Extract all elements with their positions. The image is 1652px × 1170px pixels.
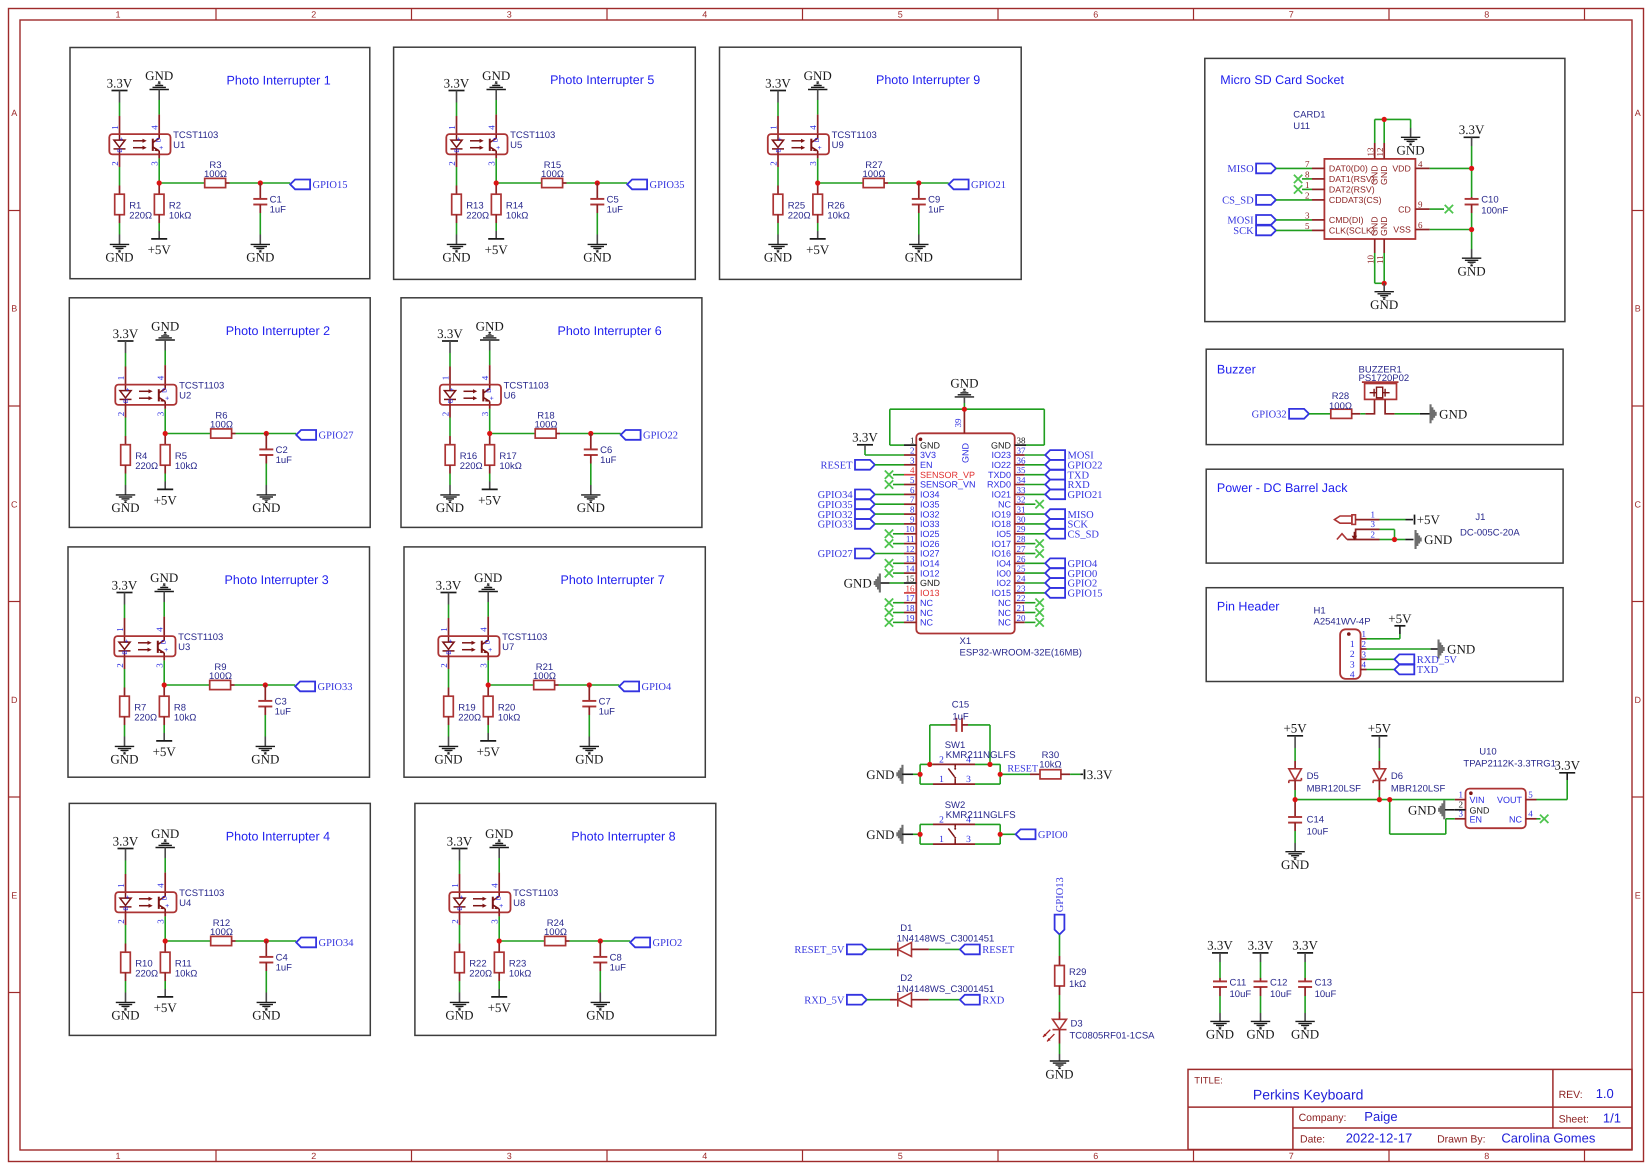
pin of R23 [498, 973, 500, 981]
wire [559, 684, 590, 686]
pin of R6 [210, 433, 212, 435]
svg-text:CS_SD: CS_SD [1068, 530, 1100, 541]
pin 28 of X1 [1015, 543, 1025, 545]
wire [777, 167, 779, 186]
light arrows of U6 [464, 390, 474, 392]
ground [479, 584, 498, 591]
svg-text:GND: GND [1424, 532, 1452, 547]
ground [896, 765, 903, 784]
pin of R16 [449, 436, 451, 445]
ground [580, 746, 599, 753]
pin 1 of U7 [448, 618, 450, 636]
svg-text:14: 14 [906, 564, 916, 574]
no-connect X [885, 569, 893, 578]
wire [164, 340, 166, 351]
svg-text:GND: GND [1370, 297, 1398, 312]
svg-text:RXD_5V: RXD_5V [804, 995, 845, 1006]
wire [1367, 648, 1431, 650]
no-connect X [885, 471, 893, 479]
light arrows of U7 [462, 642, 472, 644]
wire [560, 433, 591, 435]
svg-text:+5V: +5V [485, 242, 509, 257]
global label GPIO32 [1289, 409, 1309, 419]
svg-text:+5V: +5V [1417, 512, 1441, 527]
global label GPIO0 [1045, 568, 1065, 578]
pin of R12 [210, 940, 212, 942]
power 3.3V [452, 848, 468, 850]
svg-text:GND: GND [920, 440, 941, 450]
wire [495, 231, 497, 239]
svg-text:+5V: +5V [478, 493, 502, 508]
ESP32 module X1 body [916, 433, 1014, 633]
wire [893, 612, 904, 614]
global label GPIO35 [855, 499, 875, 509]
svg-text:SENSOR_VN: SENSOR_VN [920, 480, 976, 490]
pin of R28 [1352, 413, 1361, 415]
svg-text:2: 2 [441, 412, 451, 417]
switch arrow of J1 [1353, 532, 1355, 537]
svg-text:3.3V: 3.3V [113, 833, 139, 848]
junction [1377, 797, 1382, 802]
svg-text:GND: GND [804, 68, 832, 83]
svg-text:220Ω: 220Ω [134, 713, 157, 724]
capacitor C8 1uF [593, 957, 607, 963]
svg-text:1uF: 1uF [952, 711, 969, 722]
svg-text:GND: GND [150, 570, 178, 585]
wire [963, 403, 965, 409]
wire [489, 409, 491, 434]
wire [1025, 621, 1036, 623]
pin 6 of X1 [904, 493, 916, 495]
section box Power - DC Barrel Jack [1206, 469, 1563, 563]
ground [1375, 292, 1394, 299]
svg-text:B: B [123, 399, 130, 403]
svg-text:1: 1 [116, 376, 126, 381]
wire [1025, 484, 1046, 486]
svg-text:NC: NC [998, 598, 1011, 608]
pin 31 of X1 [1015, 513, 1025, 515]
svg-text:U7: U7 [502, 642, 514, 653]
svg-text:D3: D3 [1071, 1019, 1083, 1030]
resistor R28 100Ω [1331, 409, 1352, 418]
pin 3 of H1 [1361, 658, 1367, 660]
svg-text:IO33: IO33 [920, 519, 940, 529]
power 3.3V [1212, 952, 1228, 954]
wire [1471, 137, 1473, 146]
section box Photo Interrupter 7 [404, 547, 705, 777]
wire [889, 409, 891, 445]
wire [1304, 996, 1306, 1013]
wire [1431, 648, 1438, 650]
ground [874, 574, 881, 593]
svg-text:4: 4 [1418, 159, 1423, 169]
svg-text:3.3V: 3.3V [107, 75, 133, 90]
pin 4 of U10 [1526, 818, 1537, 820]
svg-text:10kΩ: 10kΩ [169, 211, 191, 222]
pin 1 of X1 [904, 444, 916, 446]
pin 18 of X1 [904, 612, 916, 614]
opto-interrupter U8 TCST1103 [449, 892, 510, 912]
svg-text:2: 2 [311, 10, 316, 20]
global label GPIO4 [1045, 558, 1065, 568]
svg-text:+5V: +5V [1388, 611, 1412, 626]
pin of D2 [890, 999, 898, 1001]
wire [913, 773, 920, 775]
svg-text:9: 9 [1418, 200, 1423, 210]
wire [1302, 178, 1312, 180]
pins of SW1 [933, 763, 975, 765]
svg-text:+: + [165, 903, 169, 910]
wire [920, 763, 933, 765]
junction [494, 180, 499, 185]
svg-text:1: 1 [441, 376, 451, 381]
wire [930, 724, 951, 726]
pin of R11 [164, 973, 166, 981]
wire [163, 660, 165, 685]
svg-text:1: 1 [450, 883, 460, 888]
resistor R9 100Ω [210, 680, 231, 689]
svg-text:VDD: VDD [1392, 164, 1411, 174]
global label TXD [1394, 665, 1414, 675]
svg-text:33: 33 [1017, 485, 1027, 495]
pin of R2 [158, 215, 160, 223]
pin of R7 [124, 688, 126, 697]
wire [495, 223, 497, 231]
power 3.3V [1297, 952, 1313, 954]
pin 3 of U1 [158, 154, 160, 158]
svg-text:Photo Interrupter 2: Photo Interrupter 2 [226, 324, 330, 338]
svg-text:+: + [124, 639, 128, 646]
power +5V [482, 488, 498, 490]
wire [499, 940, 545, 942]
wire [119, 223, 121, 235]
svg-text:GPIO35: GPIO35 [650, 180, 685, 191]
pin of C11 [1219, 978, 1221, 981]
svg-text:B: B [1635, 304, 1641, 314]
svg-text:TXD: TXD [1417, 665, 1439, 676]
wire [448, 725, 450, 737]
svg-text:1: 1 [769, 125, 779, 130]
wire [158, 231, 160, 239]
svg-text:3: 3 [966, 775, 971, 785]
svg-text:5: 5 [898, 10, 903, 20]
wire [456, 167, 458, 186]
global label MISO [1256, 164, 1276, 174]
svg-text:MBR120LSF: MBR120LSF [1391, 784, 1446, 795]
section box Photo Interrupter 6 [401, 298, 702, 528]
section box Buzzer [1206, 349, 1563, 444]
wire [1260, 996, 1262, 1013]
junction [1293, 797, 1298, 802]
wire [893, 533, 904, 535]
svg-text:IO18: IO18 [991, 519, 1011, 529]
pin 1 of U3 [124, 618, 126, 636]
svg-text:1: 1 [1350, 640, 1355, 650]
pin of R17 [489, 465, 491, 473]
ground [581, 495, 600, 502]
wire [1070, 773, 1080, 775]
wire [449, 341, 451, 353]
wire [1309, 413, 1330, 415]
wire [1537, 799, 1568, 801]
svg-text:ESP32-WROOM-32E(16MB): ESP32-WROOM-32E(16MB) [960, 648, 1082, 659]
wire [124, 605, 126, 619]
wire [567, 182, 598, 184]
svg-text:1: 1 [447, 125, 457, 130]
wire [591, 433, 621, 435]
wire [448, 605, 450, 619]
pin of C10 [1471, 205, 1473, 214]
svg-text:10uF: 10uF [1307, 827, 1329, 838]
no-connect X [1035, 549, 1043, 558]
svg-text:3.3V: 3.3V [1554, 758, 1580, 773]
power 3.3V [1253, 952, 1269, 954]
resistor R27 100Ω [863, 178, 884, 187]
pin of C5 [596, 183, 598, 199]
wire [818, 182, 864, 184]
wire [1276, 167, 1312, 169]
pin 3 of U4 [164, 912, 166, 916]
pin of R8 [163, 717, 165, 725]
svg-text:MISO: MISO [1227, 164, 1254, 175]
LED of U9 [772, 135, 784, 154]
svg-text:GND: GND [905, 250, 933, 265]
phototransistor of U1 [153, 135, 159, 154]
pin of D5 [1294, 761, 1296, 769]
wire [1080, 773, 1083, 775]
pin of R30 [1030, 773, 1040, 775]
pin of R16 [449, 465, 451, 473]
svg-text:VSS: VSS [1393, 225, 1411, 235]
wire [1059, 995, 1061, 1012]
svg-text:4: 4 [808, 125, 818, 130]
svg-text:4: 4 [155, 627, 165, 632]
pin 4 of U3 [163, 617, 165, 637]
svg-text:KMR211NGLFS: KMR211NGLFS [946, 750, 1017, 761]
pin of C1 [259, 183, 261, 199]
pin of R27 [884, 182, 888, 184]
wire [448, 737, 450, 747]
wire [489, 482, 491, 490]
pin of R14 [495, 215, 497, 223]
no-connect X [885, 599, 893, 607]
svg-text:Micro SD Card Socket: Micro SD Card Socket [1220, 73, 1344, 87]
wire [459, 925, 461, 944]
pin 13 of X1 [904, 562, 916, 564]
svg-text:EN: EN [920, 460, 933, 470]
wire [495, 100, 497, 115]
svg-text:GPIO27: GPIO27 [818, 549, 853, 560]
junction [497, 938, 502, 943]
wire [159, 182, 205, 184]
svg-text:1: 1 [439, 627, 449, 632]
svg-text:2: 2 [115, 663, 125, 668]
svg-text:100Ω: 100Ω [209, 671, 232, 682]
svg-text:1: 1 [1305, 180, 1310, 190]
svg-text:4: 4 [480, 375, 490, 380]
junction [587, 682, 592, 687]
ground [1415, 530, 1422, 549]
wire [264, 737, 266, 747]
svg-text:NC: NC [920, 608, 933, 618]
svg-text:220Ω: 220Ω [135, 969, 158, 980]
capacitor C13 10uF [1298, 981, 1312, 987]
ground [257, 495, 276, 502]
wire [1276, 229, 1312, 231]
global label GPIO34 [855, 490, 875, 500]
power +5V [151, 238, 167, 240]
svg-text:GPIO33: GPIO33 [318, 682, 353, 693]
global label GPIO21 [949, 180, 969, 190]
pin 2 of U3 [124, 656, 126, 669]
svg-text:+: + [450, 387, 454, 394]
svg-text:GND: GND [991, 440, 1012, 450]
DC barrel jack J1 sleeve symbol [1337, 534, 1347, 540]
svg-text:GND: GND [764, 250, 792, 265]
svg-text:KMR211NGLFS: KMR211NGLFS [946, 810, 1017, 821]
wire [1445, 819, 1447, 834]
wire [1059, 1044, 1061, 1055]
wire [1025, 553, 1036, 555]
global label GPIO13 [1055, 915, 1065, 935]
svg-text:VIN: VIN [1470, 795, 1485, 805]
ground [447, 244, 466, 251]
pin of R30 [1061, 773, 1070, 775]
pin of R4 [125, 465, 127, 473]
wire [1471, 249, 1473, 258]
pin 22 of X1 [1015, 602, 1025, 604]
wire [164, 482, 166, 490]
wire [1395, 413, 1420, 415]
ground [955, 390, 974, 397]
svg-text:B: B [448, 399, 455, 403]
switch SW2 KMR211NGLFS [948, 824, 956, 844]
LED of U1 [114, 135, 126, 154]
resistor R21 100Ω [534, 680, 555, 689]
wire [1000, 773, 1030, 775]
global label RXD [1045, 480, 1065, 490]
light arrows of U1 [133, 140, 143, 142]
wire [590, 464, 592, 486]
svg-text:IO13: IO13 [920, 588, 940, 598]
wire [875, 464, 904, 466]
wire [1025, 533, 1046, 535]
pin of R11 [164, 941, 166, 952]
global label MOSI [1256, 215, 1276, 225]
phototransistor of U8 [493, 893, 499, 912]
svg-text:SENSOR_VP: SENSOR_VP [920, 470, 975, 480]
wire [975, 823, 1000, 825]
svg-text:30: 30 [1017, 514, 1027, 524]
pin of C3 [264, 707, 266, 716]
buzzer top plate [1362, 381, 1399, 383]
LED D3 TC0805RF01-1CSA [1053, 1019, 1067, 1029]
svg-text:B: B [122, 650, 129, 654]
svg-text:GND: GND [442, 250, 470, 265]
capacitor C3 1uF [258, 701, 272, 707]
svg-text:10kΩ: 10kΩ [175, 969, 197, 980]
pin of D3 [1059, 1012, 1061, 1020]
svg-text:4: 4 [487, 125, 497, 130]
pin 37 of X1 [1015, 454, 1025, 456]
svg-text:TITLE:: TITLE: [1194, 1076, 1223, 1087]
resistor R15 100Ω [542, 178, 563, 187]
ground [591, 1002, 610, 1009]
wire [125, 849, 127, 861]
power 3.3V [770, 90, 786, 92]
svg-text:GND: GND [1408, 802, 1436, 817]
svg-text:39: 39 [953, 418, 963, 428]
wire [1025, 543, 1036, 545]
power +5V [1287, 735, 1303, 737]
svg-text:RXD0: RXD0 [987, 480, 1011, 490]
svg-text:+: + [159, 145, 163, 152]
svg-text:+: + [456, 137, 460, 144]
capacitor C5 1uF [590, 199, 604, 205]
svg-text:1: 1 [1371, 509, 1376, 519]
svg-text:GND: GND [474, 570, 502, 585]
svg-text:10: 10 [906, 524, 916, 534]
wire [1390, 833, 1446, 835]
svg-text:GND: GND [1397, 143, 1425, 158]
pin 5 of U11 [1312, 229, 1324, 231]
svg-text:220Ω: 220Ω [788, 211, 811, 222]
ground [116, 495, 135, 502]
svg-text:3: 3 [487, 161, 497, 166]
svg-text:GPIO32: GPIO32 [1252, 410, 1287, 421]
wire [1025, 592, 1046, 594]
svg-text:28: 28 [1017, 534, 1027, 544]
junction [998, 832, 1003, 837]
wire [1375, 282, 1385, 284]
svg-text:GND: GND [105, 250, 133, 265]
ground [480, 333, 499, 340]
pin header H1 body [1340, 629, 1361, 679]
wire [125, 341, 127, 353]
svg-text:+5V: +5V [154, 1000, 178, 1015]
section box Photo Interrupter 9 [720, 47, 1022, 279]
section box Photo Interrupter 8 [415, 803, 716, 1035]
phototransistor of U6 [483, 385, 489, 404]
junction [487, 431, 492, 436]
pin of R10 [125, 944, 127, 953]
power 3.3V [441, 592, 457, 594]
wire [590, 485, 592, 495]
wire [918, 235, 920, 245]
pin of D3 [1059, 1030, 1061, 1044]
pin 4 of U9 [817, 115, 819, 135]
junction [588, 431, 593, 436]
wire [867, 948, 890, 950]
no-connect X [885, 559, 893, 567]
wire [1025, 562, 1046, 564]
pin 1 of U4 [125, 874, 127, 892]
pin of C2 [265, 434, 267, 450]
svg-text:3.3V: 3.3V [852, 430, 878, 445]
wire [125, 353, 127, 367]
wire [1471, 230, 1473, 250]
svg-text:C: C [1635, 500, 1642, 510]
junction [998, 772, 1003, 777]
power +5V [810, 238, 826, 240]
regulator U10 TPAP2112K-3.3TRG1 body [1466, 789, 1526, 829]
svg-text:IO32: IO32 [920, 509, 940, 519]
svg-text:D6: D6 [1391, 771, 1403, 782]
power +5V [156, 740, 172, 742]
svg-text:IO14: IO14 [920, 559, 940, 569]
wire [1260, 953, 1262, 962]
svg-text:E: E [1635, 891, 1641, 901]
